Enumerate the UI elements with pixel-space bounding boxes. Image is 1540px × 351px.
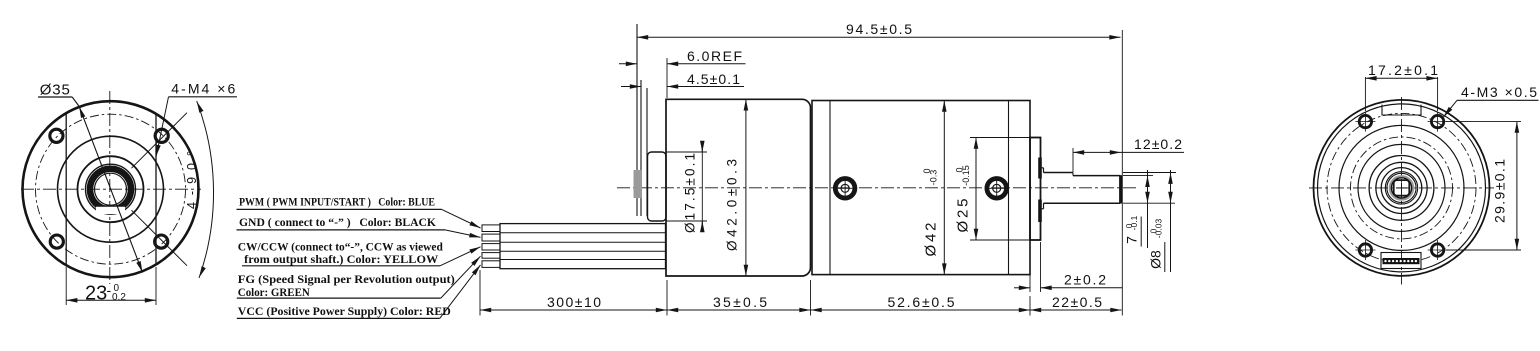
dimension 300±10 <box>480 294 667 310</box>
dimension 12±0.2 <box>1073 136 1184 172</box>
output boss Ø17.5 <box>648 152 667 221</box>
motor can front seam line <box>829 101 831 275</box>
dimension 7 0/-0.1 <box>1123 170 1175 248</box>
right view shaft square gray ring <box>1390 176 1414 200</box>
wire 5 stub <box>482 261 500 268</box>
svg-text:2±0.2: 2±0.2 <box>1064 272 1106 288</box>
wire label GND <box>237 217 446 230</box>
front plate second line (4.5 extension) <box>640 80 642 216</box>
svg-text:Ø8: Ø8 <box>1148 250 1164 269</box>
right view small cross <box>1396 182 1407 193</box>
left view vertical centerline <box>109 91 111 284</box>
right view screw hole bottom-left <box>1355 240 1375 260</box>
svg-text:22±0.5: 22±0.5 <box>1052 294 1102 310</box>
svg-text:52.6±0.5: 52.6±0.5 <box>888 294 955 310</box>
svg-text:FG (Speed Signal per Revolutio: FG (Speed Signal per Revolution output) <box>238 274 455 286</box>
leader Ø35 underline <box>38 97 79 107</box>
through-bolt screw head (rear) <box>987 179 1007 199</box>
left view mounting hole bottom-right <box>155 235 168 248</box>
svg-text:23: 23 <box>85 283 107 305</box>
label Ø35 <box>40 82 70 99</box>
dimension 35±0.5 <box>667 294 811 310</box>
dimension Ø25 0/-0.15 extension lines <box>970 138 1032 241</box>
svg-text:Ø17.5±0.1: Ø17.5±0.1 <box>683 153 698 233</box>
front plate gray section patch <box>634 170 643 198</box>
svg-text:-: - <box>107 282 112 298</box>
left view bolt circle (dash-dot) <box>36 114 186 264</box>
svg-text:4-M3 ×0.5: 4-M3 ×0.5 <box>1461 84 1537 100</box>
wire bundle divider 3 <box>500 250 666 252</box>
svg-text:12±0.2: 12±0.2 <box>1134 136 1182 152</box>
left view outer flange circle Ø35 <box>23 101 199 277</box>
dimension Ø8 0/-0.03 <box>1123 170 1176 272</box>
dimension Ø17.5±0.1 <box>666 143 707 233</box>
wire 1 stub <box>482 225 500 232</box>
wire 4 stub <box>482 253 500 259</box>
dimension 22±0.5 <box>1030 294 1122 310</box>
rear hub <box>1041 168 1044 209</box>
rear shaft Ø8 <box>1044 173 1121 204</box>
leader 4-M4 underline and arrow <box>156 97 237 156</box>
left view radial line NE (to 4-90 arc) <box>132 113 188 169</box>
dimension Ø25 0/-0.15 <box>954 138 976 241</box>
dimension text 23 -0.2 <box>85 282 126 305</box>
svg-text:Ø42.0±0.3: Ø42.0±0.3 <box>725 159 740 251</box>
left view mounting hole top-right <box>155 129 168 142</box>
wire label FG line2 <box>237 287 441 299</box>
wire leader GND <box>445 230 481 238</box>
svg-text:CW/CCW (connect to“-”, CCW as: CW/CCW (connect to“-”, CCW as viewed <box>238 241 444 253</box>
left view radial line SE (to 4-90 arc) <box>132 210 188 266</box>
right view screw hole top-left <box>1355 112 1375 132</box>
right view vertical centerline <box>1401 97 1403 285</box>
extension line motor rear <box>1029 296 1031 316</box>
right view bottom connector <box>1381 253 1421 269</box>
extension line wire end <box>479 270 481 316</box>
left view boss circle <box>78 156 144 222</box>
dimension 17.2±0.1 <box>1365 62 1438 111</box>
left view shaft D-flat chord <box>96 205 126 207</box>
rear boss thick edge segments <box>1038 158 1042 223</box>
right view housing circle 2 <box>1358 144 1445 231</box>
left view mounting hole bottom-left <box>50 235 63 248</box>
middle view axis centerline <box>617 187 1137 189</box>
svg-text:7: 7 <box>1123 236 1139 244</box>
svg-text:Ø35: Ø35 <box>40 82 70 99</box>
dimension 23 -0.2 extension lines <box>66 267 156 305</box>
svg-text:GND ( connect to “-” ) Color: GND ( connect to “-” ) Color: BLACK <box>239 217 436 229</box>
rear boss Ø25 <box>1030 138 1041 241</box>
svg-text:PWM ( PWM INPUT/START ) Colo: PWM ( PWM INPUT/START ) Color: BLUE <box>239 197 435 209</box>
dimension 6.0REF <box>619 48 746 64</box>
right view screw hole bottom-right <box>1428 240 1448 260</box>
wire leader VCC <box>440 265 481 319</box>
svg-text:-0.15: -0.15 <box>961 165 971 186</box>
svg-text:0.2: 0.2 <box>112 292 126 303</box>
svg-text:29.9±0.1: 29.9±0.1 <box>1492 159 1508 223</box>
wire bundle outline <box>500 224 666 269</box>
left view square body right edge <box>155 114 157 266</box>
dimension line Ø35 diagonal <box>79 107 142 273</box>
wire leader CW/CCW <box>440 247 481 266</box>
wire 3 stub <box>482 244 500 250</box>
left view mounting hole top-left <box>50 129 63 142</box>
svg-text:94.5±0.5: 94.5±0.5 <box>846 21 912 37</box>
svg-text:Ø42: Ø42 <box>922 223 939 257</box>
wire 2 stub <box>482 234 500 241</box>
right view bolt circle (dash-dot) <box>1327 113 1476 262</box>
right view dashed circle <box>1351 137 1453 239</box>
svg-text:-0.03: -0.03 <box>1153 219 1163 239</box>
wire leader PWM <box>442 209 481 228</box>
motor body <box>812 101 1030 275</box>
dimension 4.5±0.1 <box>621 71 744 87</box>
wire bundle divider 4 <box>500 259 666 261</box>
left view shaft bore thick ring <box>90 169 131 210</box>
through-bolt screw head (front) <box>835 179 855 199</box>
left view square body left edge <box>65 114 67 266</box>
label 4-M3 x0.5 <box>1457 84 1539 100</box>
svg-text:Ø25: Ø25 <box>954 199 971 233</box>
wire leader FG <box>441 256 481 298</box>
label 4-90deg (rotated) <box>185 151 199 209</box>
wire label CW/CCW line1 <box>238 241 444 253</box>
dimension Ø42.0±0.3 <box>725 99 746 276</box>
dimension line 23 -0.2 <box>66 299 156 301</box>
left view flange step circle <box>58 136 164 242</box>
motor end cap seam line <box>1008 101 1010 275</box>
right view horizontal centerline <box>1309 187 1494 189</box>
dimension 2±0.2 <box>1014 242 1123 292</box>
left view shaft D-flat white patch <box>96 207 125 215</box>
svg-text:from output shaft.) Color: Y: from output shaft.) Color: YELLOW <box>244 254 439 266</box>
right view outer circle <box>1314 100 1490 276</box>
right view housing circle 1 <box>1339 125 1464 250</box>
wire label CW/CCW line2 <box>242 254 440 266</box>
left view horizontal centerline <box>21 188 201 190</box>
svg-text:4.5±0.1: 4.5±0.1 <box>687 71 740 87</box>
gearbox body <box>666 99 811 276</box>
leader 4-M3 <box>1444 100 1458 117</box>
svg-text:Color: GREEN: Color: GREEN <box>238 287 311 299</box>
extension line gearbox front top <box>666 58 668 98</box>
wire label FG line1 <box>238 274 455 286</box>
label 4-M4 x6 <box>171 81 235 97</box>
front plate third line <box>646 88 648 216</box>
extension line gearbox/motor joint <box>810 280 812 316</box>
wire label VCC <box>237 306 451 318</box>
svg-text:-0.3: -0.3 <box>929 170 939 186</box>
right view inner rim circle <box>1318 104 1486 272</box>
wire label PWM <box>237 197 442 210</box>
right view shaft rounded square <box>1394 180 1410 196</box>
left view bearing ring circle <box>86 164 136 214</box>
dimension 29.9±0.1 <box>1446 122 1521 250</box>
wire bundle divider 1 <box>500 232 666 234</box>
extension line at shaft tip <box>1121 30 1123 316</box>
svg-text:-0.1: -0.1 <box>1129 215 1139 230</box>
right view screw hole top-right <box>1428 112 1448 132</box>
dimension 94.5±0.5 <box>637 21 1121 37</box>
extension line gearbox front bottom <box>666 280 668 316</box>
right view top notch <box>1382 105 1421 115</box>
front plate face line (and 94.5/6.0 extension) <box>636 24 638 216</box>
wire bundle divider 2 <box>500 241 666 243</box>
svg-text:VCC (Positive Power Supply) C: VCC (Positive Power Supply) Color: RED <box>238 306 451 318</box>
right view center cluster circles <box>1369 156 1434 221</box>
dimension 52.6±0.5 <box>811 294 1031 310</box>
dimension Ø42 0/-0.3 (motor) <box>922 101 944 275</box>
dimension arc 4-90deg <box>197 101 214 278</box>
left view shaft inner circle <box>95 173 127 205</box>
